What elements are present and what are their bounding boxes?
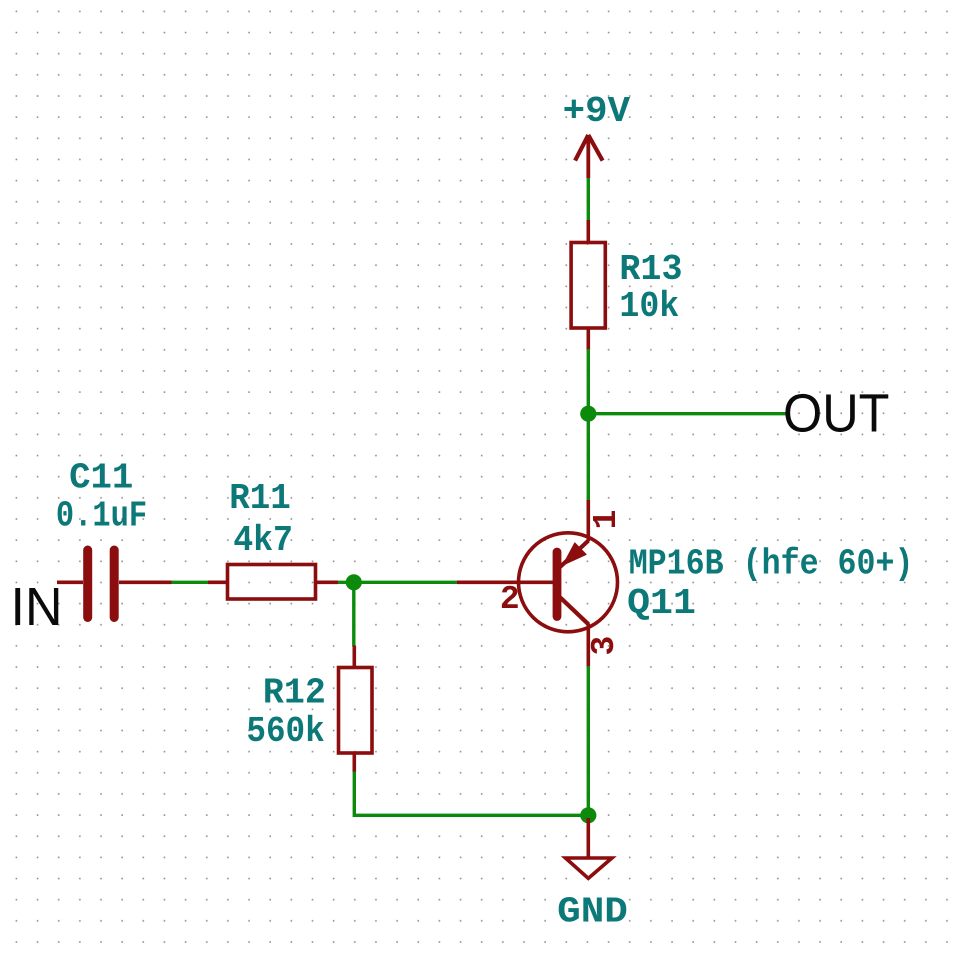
wire to OUT [588, 412, 788, 415]
ground symbol [566, 818, 612, 878]
svg-text:4k7: 4k7 [233, 520, 293, 561]
junction node OUT [580, 406, 596, 422]
svg-text:2: 2 [500, 581, 520, 618]
svg-text:3: 3 [586, 636, 623, 656]
svg-text:OUT: OUT [783, 383, 890, 443]
resistor R12 [339, 646, 373, 773]
emitter diagonal [560, 541, 589, 568]
transistor Q11 [457, 500, 618, 667]
pin 1 (emitter pin) [586, 500, 590, 541]
emitter arrow [563, 543, 586, 565]
power +9V symbol [575, 135, 603, 178]
svg-text:C11: C11 [69, 458, 133, 499]
wire R12 to bottom rail [354, 772, 588, 816]
pin 3 (collector pin) [586, 624, 590, 667]
svg-text:MP16B (hfe 60+): MP16B (hfe 60+) [629, 544, 914, 585]
wire Q11 collector to bottom rail [587, 666, 590, 815]
wire +9V to R13 [587, 178, 590, 221]
wire C11 to R11 [172, 581, 210, 584]
svg-text:R13: R13 [619, 249, 682, 290]
svg-text:R12: R12 [263, 672, 326, 713]
svg-text:GND: GND [557, 892, 628, 933]
resistor R11 [208, 565, 338, 600]
capacitor C11 [57, 550, 172, 618]
svg-text:IN: IN [11, 577, 63, 637]
svg-text:560k: 560k [246, 711, 324, 752]
junction node bottom rail [580, 807, 596, 823]
collector diagonal [560, 597, 589, 625]
base bar [553, 552, 562, 617]
base pin (pin 2) [457, 580, 555, 584]
body circle [519, 533, 618, 632]
resistor R13 [571, 220, 605, 350]
svg-text:10k: 10k [619, 286, 679, 327]
svg-text:R11: R11 [229, 478, 291, 519]
wire R13 to Q11 emitter [587, 349, 590, 501]
wire junction to R12 [352, 582, 355, 646]
svg-text:Q11: Q11 [627, 583, 696, 624]
svg-text:1: 1 [588, 510, 625, 530]
svg-text:0.1uF: 0.1uF [56, 495, 147, 536]
wire R11 to Q11 base [338, 581, 457, 584]
junction node base/R12 [346, 574, 362, 590]
svg-text:+9V: +9V [563, 91, 630, 132]
